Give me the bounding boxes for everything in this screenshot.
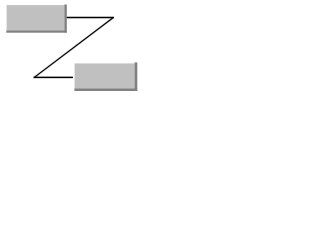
wire diagonal halo: [34, 18, 113, 78]
wire diagonal: [34, 18, 113, 78]
wire top horizontal halo: [67, 16, 114, 19]
wire bottom horizontal to B2: [34, 76, 73, 78]
wire top horizontal from B1: [67, 17, 114, 19]
box B1 shadow right: [64, 5, 66, 33]
box B1 shadow bottom: [6, 30, 67, 32]
box B2 shadow bottom: [74, 88, 137, 91]
box B2 shadow right: [135, 62, 138, 91]
box B1 fill: [7, 5, 65, 30]
box B2 fill: [75, 63, 135, 88]
wire bottom horizontal halo: [34, 76, 73, 79]
